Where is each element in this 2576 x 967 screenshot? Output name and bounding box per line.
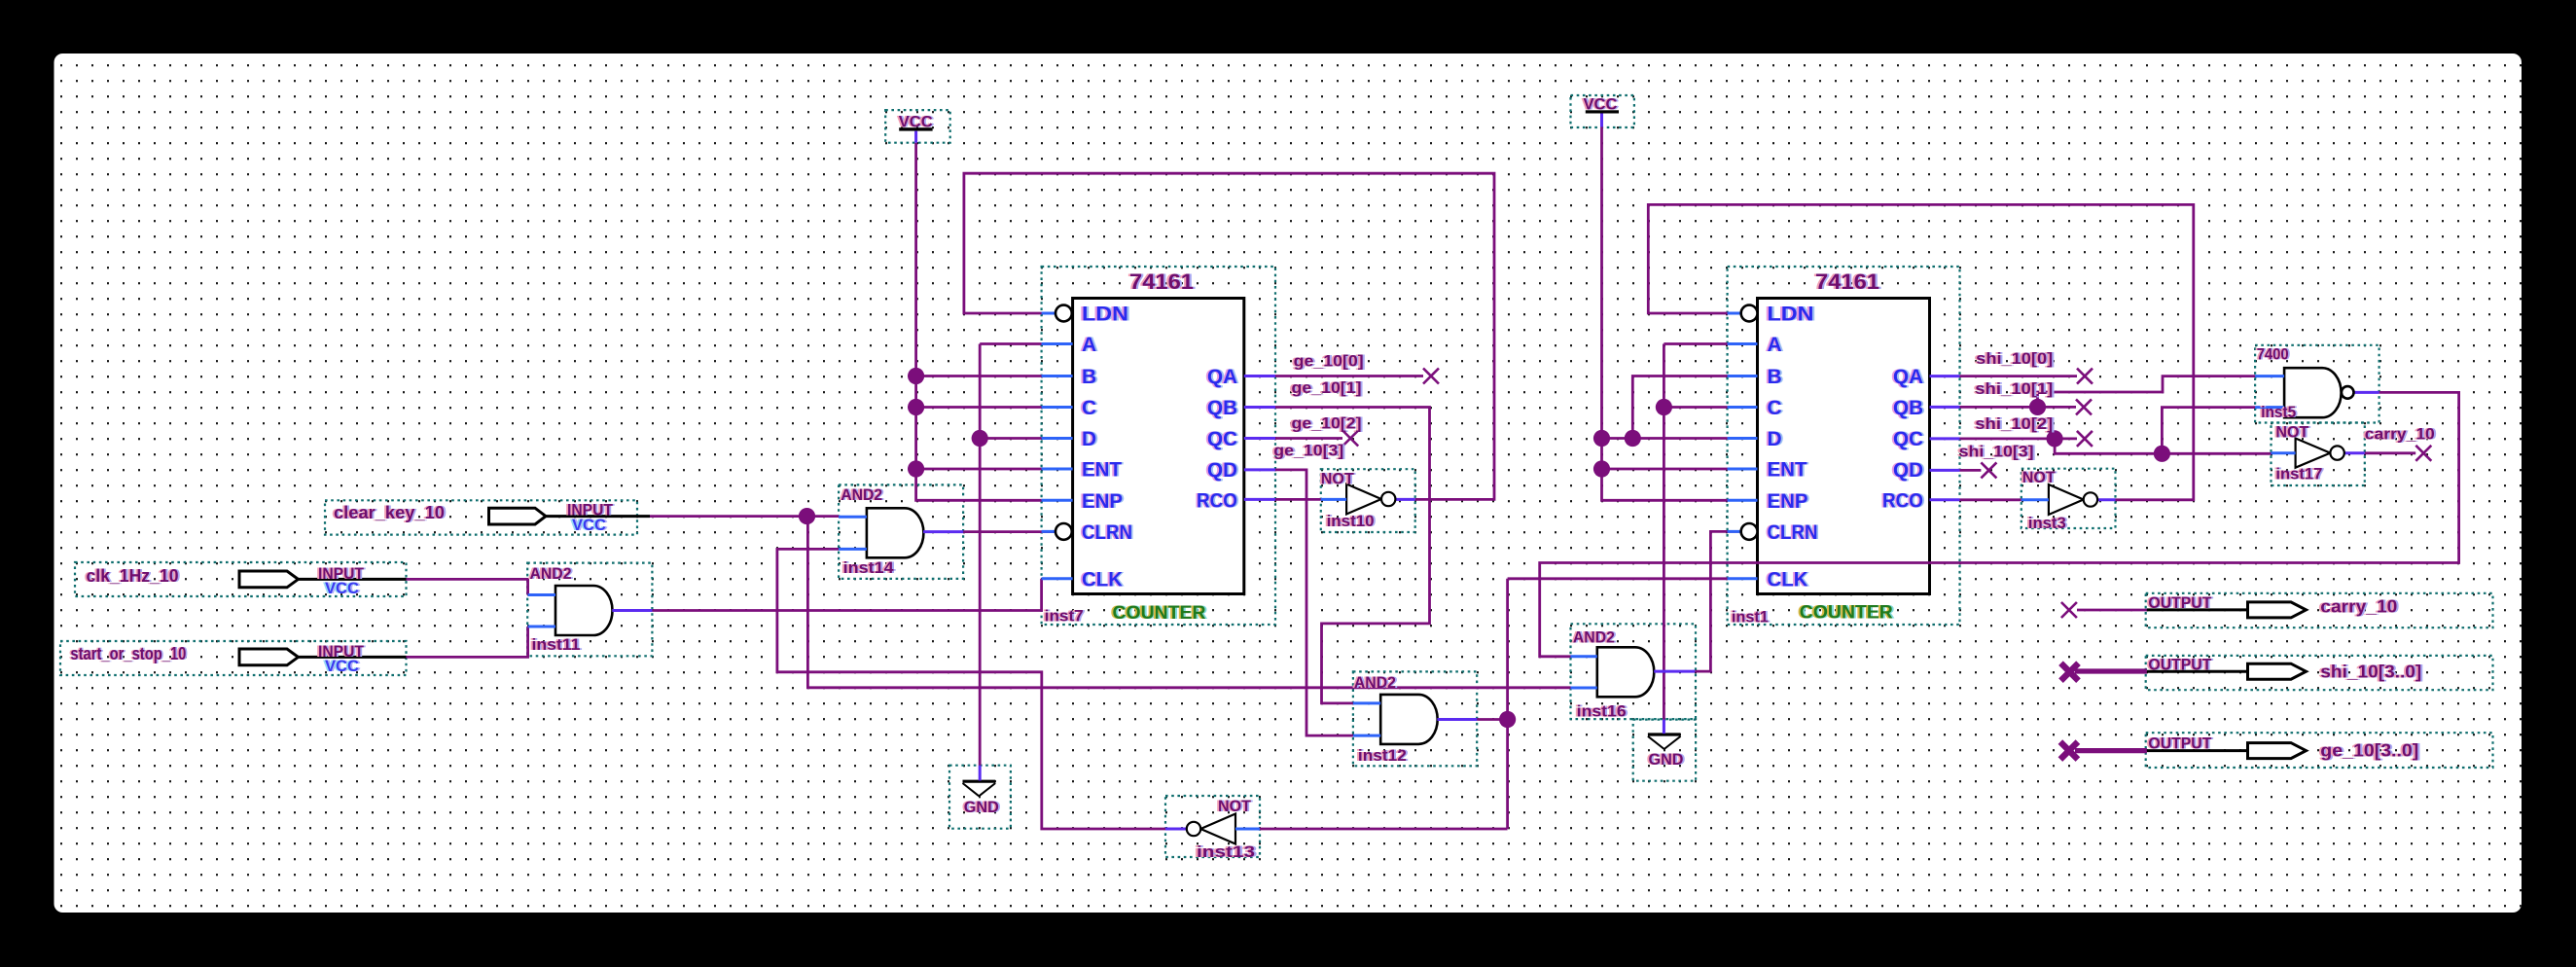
svg-text:QB: QB [1893, 397, 1923, 419]
pin stub inst3 input [2021, 498, 2049, 501]
svg-text:clk_1Hz_10: clk_1Hz_10 [87, 566, 179, 586]
selection box counter inst1 [1728, 267, 1960, 625]
svg-text:shi_10[2]: shi_10[2] [1975, 414, 2053, 433]
wire inst16 output to CLRN2 [1695, 531, 1740, 671]
svg-text:ge_10[1]: ge_10[1] [1292, 378, 1362, 397]
svg-text:QA: QA [1207, 366, 1237, 388]
X mark QB2 shi_10[1] [2076, 399, 2092, 414]
input pin start_or_stop_10 symbol [239, 649, 299, 665]
wire inst17 output carry_10 [2365, 451, 2415, 454]
selection box VCC symbol 2 [1571, 95, 1634, 127]
wire QC ge_10[2] [1275, 437, 1342, 440]
bubble inst17 output [2330, 446, 2343, 459]
svg-text:inst11: inst11 [532, 635, 581, 654]
output stub inst14 [923, 530, 963, 533]
selection box counter inst7 [1042, 267, 1275, 625]
wire inst12 output net to CLK2 and inst13 [1260, 579, 1728, 829]
svg-text:shi_10[3..0]: shi_10[3..0] [2320, 663, 2421, 682]
bus wire ge_10 output [2075, 748, 2147, 753]
output stub inst11 [612, 609, 652, 612]
svg-text:OUTPUT: OUTPUT [2148, 734, 2212, 753]
output pin carry_10 symbol [2248, 602, 2307, 618]
black lead carry_10 [2147, 608, 2248, 611]
AND2 gate inst16 [1597, 647, 1655, 697]
selection box GND symbol 1 [949, 766, 1011, 829]
svg-text:inst1: inst1 [1732, 608, 1769, 627]
pin names counter inst7 right [1197, 366, 1237, 512]
svg-text:shi_10[0]: shi_10[0] [1976, 349, 2053, 368]
wire clk_1Hz net [407, 579, 528, 594]
output pin ge_10 symbol [2248, 743, 2307, 759]
selection box AND2 inst14 [839, 484, 963, 579]
pin stub inst17 input [2272, 451, 2296, 454]
pin names counter inst1 left [1768, 304, 1818, 591]
junction clear_key at inst14 branch [799, 508, 815, 524]
svg-text:B: B [1082, 366, 1096, 388]
selection box GND symbol 2 [1633, 720, 1696, 781]
wire LDN feedback loop right [1648, 204, 2194, 499]
svg-text:carry_10: carry_10 [2365, 424, 2435, 443]
svg-text:74161: 74161 [1815, 269, 1879, 294]
X mark QA2 shi_10[0] [2077, 369, 2093, 384]
output stub inst17 [2344, 451, 2365, 454]
input pin clk_1Hz_10 symbol [239, 571, 299, 588]
svg-text:OUTPUT: OUTPUT [2148, 656, 2212, 674]
bold X shi_10 output [2061, 663, 2079, 681]
black lead ge_10 [2147, 749, 2248, 752]
junction GND1 row D [972, 430, 988, 447]
pin stubs inst11 inputs [528, 595, 555, 627]
svg-text:A: A [1082, 334, 1096, 356]
input pin clear_key_10 symbol [489, 508, 547, 524]
selection box output pin shi_10 [2146, 656, 2493, 690]
svg-text:QC: QC [1207, 428, 1237, 450]
svg-text:D: D [1082, 428, 1096, 450]
svg-text:AND2: AND2 [1573, 627, 1615, 646]
wire inst13 output to inst14 input [777, 549, 1165, 829]
svg-text:QD: QD [1893, 459, 1923, 482]
junction VCC2 row D [1593, 430, 1610, 447]
junction GND2 row C [1656, 399, 1672, 415]
svg-text:AND2: AND2 [1354, 673, 1396, 692]
svg-text:ge_10[3]: ge_10[3] [1273, 442, 1343, 460]
counter U-left 74161 body inst7 [1073, 299, 1244, 594]
pin stubs inst16 inputs [1571, 657, 1597, 688]
wire LDN feedback loop left [964, 173, 1494, 499]
pin names counter inst1 right [1882, 366, 1923, 512]
svg-text:CLK: CLK [1082, 568, 1123, 591]
svg-text:CLK: CLK [1768, 568, 1808, 591]
output stub inst5 [2354, 391, 2379, 394]
svg-text:CLRN: CLRN [1082, 521, 1132, 544]
junction QC2 branch [2047, 430, 2063, 447]
output stubs counter inst1 [1930, 376, 1960, 500]
svg-text:D: D [1768, 428, 1782, 450]
output stub inst3 [2097, 498, 2116, 501]
counter U-right 74161 body inst1 [1758, 299, 1930, 594]
pin stubs inst12 inputs [1353, 703, 1380, 735]
NOT gate inst10 triangle [1346, 484, 1381, 515]
X mark QA ge_10[0] [1423, 369, 1439, 384]
svg-text:LDN: LDN [1768, 304, 1814, 326]
svg-text:COUNTER: COUNTER [1800, 603, 1893, 624]
wire GND1 net [980, 344, 1041, 766]
wire RCO2 to inst3 [1960, 498, 2021, 501]
bubble LDN inst7 [1055, 305, 1072, 322]
svg-text:C: C [1082, 397, 1096, 419]
svg-text:NOT: NOT [2022, 468, 2057, 486]
svg-text:inst16: inst16 [1577, 702, 1627, 721]
svg-text:shi_10[3]: shi_10[3] [1959, 442, 2034, 460]
pin stubs inst14 inputs [839, 517, 867, 549]
pin stub inst13 input [1235, 828, 1260, 831]
selection box input pin clear_key_10 [325, 500, 637, 534]
selection box AND2 inst11 [527, 563, 652, 657]
svg-text:AND2: AND2 [841, 485, 882, 504]
junction VCC1 row B [908, 368, 924, 384]
selection box AND2 inst12 [1353, 671, 1477, 766]
AND2 gate inst12 [1380, 695, 1438, 744]
svg-text:ge_10[3..0]: ge_10[3..0] [2320, 741, 2418, 761]
X mark QC ge_10[2] [1342, 431, 1358, 447]
svg-text:VCC: VCC [325, 657, 359, 675]
svg-text:OUTPUT: OUTPUT [2148, 593, 2212, 612]
bubble CLRN inst1 [1741, 523, 1758, 540]
wire carry_10 output pin lead [2077, 609, 2147, 612]
junction QC2 at inst5 riser [2154, 446, 2170, 462]
pin stub inst10 input [1321, 498, 1346, 501]
X mark carry_10 output [2061, 602, 2077, 618]
svg-text:QC: QC [1893, 428, 1923, 450]
svg-text:GND: GND [964, 798, 999, 816]
selection box AND2 inst16 [1571, 624, 1697, 719]
selection box output pin carry_10 [2146, 593, 2493, 627]
svg-text:inst14: inst14 [843, 558, 895, 577]
wire inst11 output to CLK [652, 579, 1041, 611]
wire inst14 output to CLRN [963, 530, 1055, 533]
svg-text:AND2: AND2 [530, 564, 572, 583]
NOT gate inst17 triangle [2296, 439, 2331, 468]
svg-text:A: A [1768, 334, 1782, 356]
black lead clk_1Hz_10 [298, 578, 407, 581]
svg-text:RCO: RCO [1882, 489, 1923, 512]
pin stubs inst5 inputs [2255, 376, 2284, 408]
selection box NOT inst3 [2021, 469, 2116, 528]
NOT gate inst3 triangle [2049, 484, 2084, 515]
junction VCC2 row ENT [1593, 460, 1610, 477]
svg-text:QA: QA [1893, 366, 1923, 388]
svg-text:start_or_stop_10: start_or_stop_10 [70, 644, 186, 663]
svg-text:74161: 74161 [1129, 269, 1194, 294]
GND symbol 1 [963, 781, 996, 796]
selection box NAND 7400 inst5 [2255, 345, 2379, 423]
stub GND1 [979, 766, 982, 781]
svg-text:LDN: LDN [1082, 304, 1128, 326]
pin stubs counter inst1 left [1728, 313, 1758, 579]
wire QA2 shi_10[0] [1960, 375, 2078, 377]
bold X ge_10 output [2060, 742, 2078, 760]
selection box input pin clk_1Hz_10 [75, 562, 407, 596]
svg-text:inst10: inst10 [1327, 512, 1375, 530]
junction VCC2 branch B row D [1625, 430, 1641, 447]
wire start_or_stop net [407, 627, 528, 657]
svg-text:inst12: inst12 [1358, 746, 1407, 765]
NAND gate 7400 inst5 [2284, 368, 2342, 417]
wire VCC2 net [1602, 126, 1728, 500]
svg-text:QB: QB [1207, 397, 1237, 419]
svg-text:RCO: RCO [1197, 489, 1237, 512]
svg-text:CLRN: CLRN [1768, 521, 1818, 544]
selection box NOT inst17 [2272, 423, 2365, 486]
wire clear_key net to inst14 and inst16 [650, 517, 1571, 688]
svg-text:ge_10[0]: ge_10[0] [1294, 352, 1364, 371]
black lead start_or_stop_10 [298, 656, 407, 659]
wire GND2 net [1664, 344, 1727, 720]
svg-text:B: B [1768, 366, 1782, 388]
svg-text:C: C [1768, 397, 1782, 419]
svg-text:ENP: ENP [1768, 490, 1808, 513]
wire QD to inst12 input [1275, 470, 1353, 735]
svg-text:NOT: NOT [2275, 423, 2309, 442]
black lead shi_10 [2147, 670, 2248, 673]
svg-text:GND: GND [1649, 750, 1684, 769]
svg-text:VCC: VCC [1584, 95, 1618, 114]
X mark QC2 shi_10[2] [2077, 431, 2093, 447]
bubble inst5 output [2342, 386, 2354, 399]
wire RCO to inst10 [1275, 498, 1321, 501]
svg-text:inst13: inst13 [1197, 842, 1255, 861]
output stub inst12 [1437, 718, 1477, 721]
svg-text:inst3: inst3 [2028, 514, 2066, 532]
wire QB2 to inst5 input [1960, 376, 2256, 408]
selection box VCC symbol 1 [885, 110, 950, 143]
output stubs counter inst7 [1244, 376, 1275, 500]
svg-text:NOT: NOT [1218, 797, 1252, 815]
pin names counter inst7 left [1082, 304, 1132, 591]
svg-text:inst7: inst7 [1045, 607, 1084, 626]
selection box input pin start_or_stop_10 [60, 641, 407, 675]
svg-text:clear_key_10: clear_key_10 [334, 503, 445, 522]
svg-text:VCC: VCC [572, 516, 606, 534]
svg-text:VCC: VCC [325, 579, 359, 597]
bubble inst13 output [1187, 822, 1200, 836]
output stub inst10 [1395, 498, 1415, 501]
svg-text:ge_10[2]: ge_10[2] [1292, 414, 1362, 433]
wire QC2 to inst5 and inst17 [1960, 408, 2272, 454]
svg-text:carry_10: carry_10 [2320, 597, 2397, 617]
bubble CLRN inst7 [1055, 523, 1072, 540]
VCC symbol 2 bar [1586, 110, 1619, 113]
AND2 gate inst14 [867, 508, 924, 557]
wire VCC1 net [916, 143, 1042, 501]
svg-text:inst5: inst5 [2261, 403, 2296, 421]
junction inst12 output [1499, 711, 1516, 728]
selection box output pin ge_10 [2146, 733, 2493, 768]
bus wire shi_10 output [2075, 668, 2147, 673]
bubble LDN inst1 [1741, 305, 1758, 322]
pin stubs counter inst7 left [1042, 313, 1073, 579]
svg-text:shi_10[1]: shi_10[1] [1975, 379, 2053, 398]
wire QD2 shi_10[3] [1960, 469, 1982, 472]
bubble inst10 output [1381, 492, 1395, 506]
svg-text:VCC: VCC [899, 113, 933, 131]
svg-text:inst17: inst17 [2275, 465, 2322, 483]
output pin shi_10 symbol [2248, 663, 2307, 679]
selection box NOT inst10 [1321, 469, 1415, 532]
wire QB to inst12 input [1275, 408, 1430, 703]
GND symbol 2 [1648, 734, 1681, 749]
svg-text:NOT: NOT [1321, 470, 1355, 488]
AND2 gate inst11 [555, 586, 613, 635]
output stub inst13 [1165, 828, 1187, 831]
bubble inst3 output [2084, 492, 2097, 506]
X mark QD2 shi_10[3] [1981, 462, 1996, 478]
output stub inst16 [1654, 670, 1695, 673]
junction VCC1 row C [908, 399, 924, 415]
stub VCC2 [1600, 114, 1603, 127]
black lead clear_key_10 [546, 515, 651, 518]
NOT gate inst13 triangle (mirrored) [1200, 814, 1235, 844]
selection box NOT inst13 [1165, 796, 1260, 857]
svg-text:COUNTER: COUNTER [1113, 603, 1206, 624]
svg-text:ENT: ENT [1082, 459, 1122, 482]
X mark inst17 carry_10 [2415, 446, 2431, 461]
svg-text:ENT: ENT [1768, 459, 1807, 482]
svg-text:QD: QD [1207, 459, 1237, 482]
svg-text:ENP: ENP [1082, 490, 1123, 513]
junction VCC1 row ENT [908, 460, 924, 477]
svg-text:7400: 7400 [2257, 345, 2289, 364]
VCC symbol 1 bar [899, 127, 932, 130]
stub GND2 [1663, 720, 1665, 734]
stub VCC1 [914, 131, 917, 143]
wire inst5 output loop to inst16 input [1540, 392, 2459, 656]
junction QB2 branch [2029, 399, 2046, 415]
wire QA ge_10[0] [1275, 375, 1423, 377]
